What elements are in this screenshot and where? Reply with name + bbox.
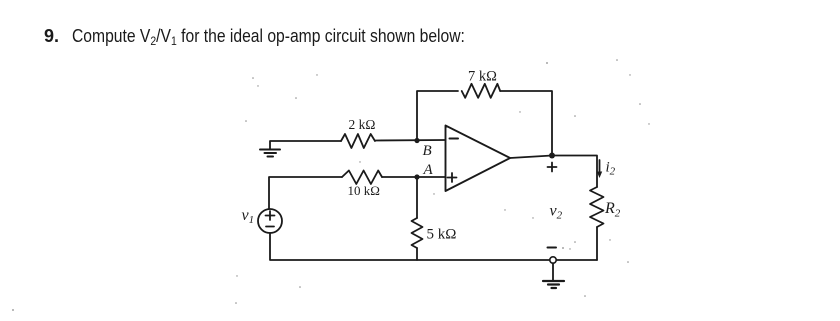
wire: v1 top to 10k resistor (non-inverting branch) (269, 177, 342, 209)
output minus sign (548, 247, 557, 249)
ground (bottom) (543, 281, 564, 288)
wire: ground stub (bottom) (552, 263, 554, 281)
svg-text:R2: R2 (604, 200, 621, 220)
ground (left) (260, 150, 280, 157)
ground node open circle (bottom) (550, 257, 556, 263)
resistor 7k zigzag (462, 84, 501, 98)
output plus sign (548, 166, 557, 168)
svg-text:v1: v1 (242, 207, 255, 226)
svg-text:10 kΩ: 10 kΩ (348, 183, 380, 198)
scan noise specks (decorative) (12, 59, 650, 311)
op-amp plus symbol (448, 177, 457, 179)
wire: 5k resistor to bottom rail (416, 248, 418, 260)
wire: R2 to bottom rail (596, 227, 598, 260)
svg-text:A: A (423, 162, 434, 178)
wire: v1 bottom to bottom rail (270, 233, 597, 260)
resistor 2k zigzag (341, 134, 375, 148)
resistor 5k vertical zigzag (412, 218, 423, 248)
svg-text:i2: i2 (606, 160, 616, 178)
node B junction dot (414, 138, 419, 143)
source minus sign (266, 226, 274, 228)
source plus sign (266, 215, 275, 217)
wire: output node to R2 branch (552, 156, 597, 188)
op-amp minus symbol (450, 138, 459, 140)
svg-text:2 kΩ: 2 kΩ (349, 117, 376, 132)
wire: 7k resistor to output branch (500, 91, 552, 156)
svg-text:B: B (423, 143, 432, 159)
resistor R2 vertical zigzag (590, 187, 604, 227)
svg-text:v2: v2 (550, 203, 563, 222)
source v1 circle (258, 209, 282, 233)
output node junction dot (549, 153, 555, 159)
wire: ground to 2k resistor (inverting branch) (270, 141, 341, 149)
wire: op-amp output to node (510, 156, 552, 159)
current arrow i2 (599, 160, 601, 175)
wire: 10k resistor to node A and op-amp plus input (382, 176, 446, 178)
op-amp triangle U1 (446, 126, 511, 192)
node A junction dot (414, 174, 419, 179)
wire: 2k resistor to node B and op-amp minus input (376, 139, 446, 142)
wire: node A down to 5k resistor (416, 177, 418, 218)
problem title (44, 26, 524, 48)
wire: feedback up from node B (417, 91, 458, 141)
resistor 10k zigzag (342, 171, 382, 185)
svg-text:7 kΩ: 7 kΩ (468, 69, 497, 85)
svg-text:5 kΩ: 5 kΩ (427, 227, 457, 243)
